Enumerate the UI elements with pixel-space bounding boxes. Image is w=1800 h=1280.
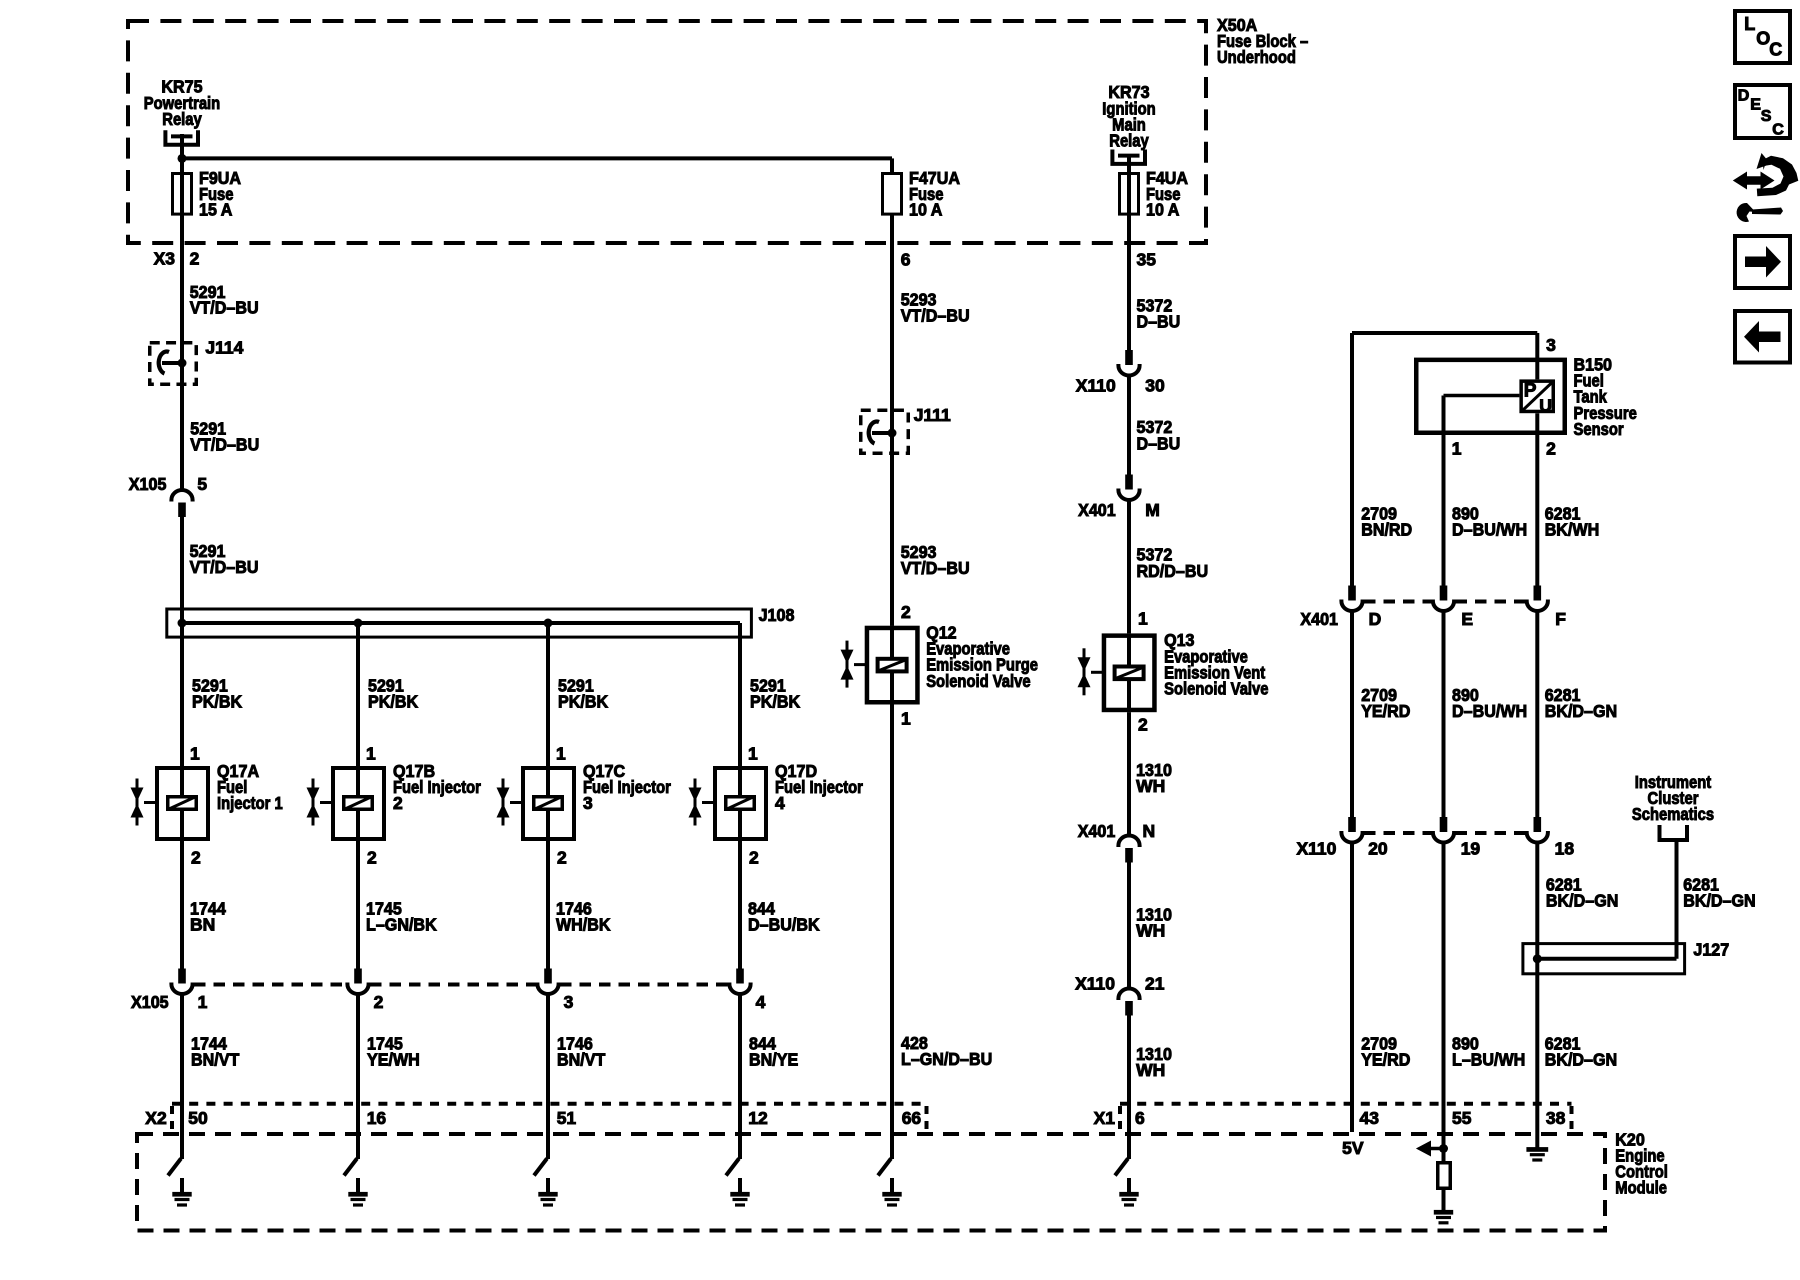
svg-text:43: 43 <box>1360 1108 1380 1128</box>
svg-text:RD/D–BU: RD/D–BU <box>1137 561 1209 581</box>
svg-text:BK/D–GN: BK/D–GN <box>1546 891 1619 911</box>
svg-text:1: 1 <box>366 744 376 764</box>
svg-text:3: 3 <box>564 992 574 1012</box>
svg-text:WH/BK: WH/BK <box>556 915 611 935</box>
svg-text:WH: WH <box>1136 776 1165 796</box>
svg-text:F: F <box>1555 609 1566 629</box>
svg-text:Relay: Relay <box>162 109 202 129</box>
svg-text:16: 16 <box>367 1108 387 1128</box>
svg-text:BN/RD: BN/RD <box>1361 520 1412 540</box>
svg-text:3: 3 <box>1546 335 1556 355</box>
svg-text:Module: Module <box>1615 1178 1667 1198</box>
svg-text:10 A: 10 A <box>909 200 943 220</box>
svg-text:35: 35 <box>1137 250 1157 270</box>
svg-text:M: M <box>1145 500 1160 520</box>
svg-text:1: 1 <box>1138 609 1148 629</box>
svg-text:10 A: 10 A <box>1146 200 1180 220</box>
svg-text:U: U <box>1539 396 1552 416</box>
svg-text:Relay: Relay <box>1109 131 1149 151</box>
svg-text:D–BU: D–BU <box>1137 433 1181 453</box>
svg-text:X401: X401 <box>1078 500 1116 520</box>
svg-text:X110: X110 <box>1076 376 1116 396</box>
svg-text:WH: WH <box>1136 920 1165 940</box>
svg-text:N: N <box>1143 821 1156 841</box>
svg-text:J111: J111 <box>914 405 951 425</box>
svg-text:3: 3 <box>583 793 593 813</box>
svg-text:C: C <box>1772 121 1784 138</box>
svg-text:6: 6 <box>1135 1108 1145 1128</box>
svg-text:2: 2 <box>367 848 377 868</box>
svg-text:YE/RD: YE/RD <box>1361 701 1410 721</box>
svg-text:Solenoid Valve: Solenoid Valve <box>926 671 1031 691</box>
svg-text:Underhood: Underhood <box>1217 47 1296 67</box>
svg-text:BK/D–GN: BK/D–GN <box>1545 1050 1618 1070</box>
svg-text:X401: X401 <box>1078 821 1116 841</box>
svg-text:VT/D–BU: VT/D–BU <box>190 434 259 454</box>
svg-text:51: 51 <box>557 1108 577 1128</box>
svg-text:VT/D–BU: VT/D–BU <box>190 298 259 318</box>
svg-text:Schematics: Schematics <box>1632 804 1714 824</box>
svg-text:30: 30 <box>1145 376 1165 396</box>
svg-text:2: 2 <box>749 848 759 868</box>
svg-text:J108: J108 <box>759 605 795 625</box>
svg-text:X1: X1 <box>1094 1108 1116 1128</box>
svg-text:X110: X110 <box>1296 838 1336 858</box>
svg-text:VT/D–BU: VT/D–BU <box>901 306 970 326</box>
svg-text:PK/BK: PK/BK <box>750 692 800 712</box>
svg-text:X2: X2 <box>145 1108 167 1128</box>
svg-text:12: 12 <box>748 1108 768 1128</box>
svg-text:Fuel Injector: Fuel Injector <box>583 777 671 797</box>
svg-text:X105: X105 <box>131 992 169 1012</box>
svg-text:5V: 5V <box>1342 1138 1364 1158</box>
svg-text:2: 2 <box>191 848 201 868</box>
svg-text:VT/D–BU: VT/D–BU <box>901 558 970 578</box>
svg-text:PK/BK: PK/BK <box>192 692 242 712</box>
svg-text:S: S <box>1761 108 1772 125</box>
svg-text:1: 1 <box>556 744 566 764</box>
svg-text:L–GN/BK: L–GN/BK <box>366 915 437 935</box>
svg-text:Injector 1: Injector 1 <box>217 793 283 813</box>
svg-text:BK/WH: BK/WH <box>1545 520 1600 540</box>
svg-text:D–BU/BK: D–BU/BK <box>748 915 820 935</box>
svg-text:38: 38 <box>1546 1108 1566 1128</box>
svg-text:PK/BK: PK/BK <box>558 692 608 712</box>
svg-text:WH: WH <box>1136 1060 1165 1080</box>
svg-text:O: O <box>1756 29 1770 49</box>
svg-text:15 A: 15 A <box>199 200 233 220</box>
svg-text:J114: J114 <box>205 338 243 358</box>
svg-text:BN/YE: BN/YE <box>749 1050 798 1070</box>
svg-text:X105: X105 <box>129 474 167 494</box>
svg-text:5: 5 <box>197 474 207 494</box>
svg-text:2: 2 <box>1138 715 1148 735</box>
svg-text:1: 1 <box>1452 438 1462 458</box>
svg-text:X110: X110 <box>1075 974 1115 994</box>
svg-text:1: 1 <box>190 744 200 764</box>
svg-text:P: P <box>1524 380 1537 401</box>
svg-text:2: 2 <box>557 848 567 868</box>
svg-text:X401: X401 <box>1300 609 1338 629</box>
svg-text:C: C <box>1769 39 1782 59</box>
svg-text:4: 4 <box>756 992 766 1012</box>
svg-text:20: 20 <box>1368 838 1388 858</box>
svg-text:2: 2 <box>190 249 200 269</box>
svg-text:21: 21 <box>1145 974 1165 994</box>
svg-text:X3: X3 <box>154 249 176 269</box>
svg-text:YE/RD: YE/RD <box>1361 1050 1410 1070</box>
svg-text:L–GN/D–BU: L–GN/D–BU <box>901 1049 992 1069</box>
svg-text:PK/BK: PK/BK <box>368 692 418 712</box>
svg-text:Fuel Injector: Fuel Injector <box>393 777 481 797</box>
svg-text:BK/D–GN: BK/D–GN <box>1683 891 1756 911</box>
svg-text:Fuel Injector: Fuel Injector <box>775 777 863 797</box>
svg-text:66: 66 <box>902 1108 922 1128</box>
svg-text:6: 6 <box>901 250 911 270</box>
svg-text:L–BU/WH: L–BU/WH <box>1452 1050 1525 1070</box>
svg-text:4: 4 <box>775 793 785 813</box>
svg-text:E: E <box>1750 97 1761 114</box>
svg-text:VT/D–BU: VT/D–BU <box>190 557 259 577</box>
svg-text:Sensor: Sensor <box>1574 419 1624 439</box>
svg-text:BN/VT: BN/VT <box>191 1050 240 1070</box>
svg-text:2: 2 <box>1546 438 1556 458</box>
svg-text:55: 55 <box>1452 1108 1472 1128</box>
svg-text:2: 2 <box>901 602 911 622</box>
svg-text:1: 1 <box>198 992 208 1012</box>
svg-text:2: 2 <box>393 793 403 813</box>
svg-text:19: 19 <box>1461 838 1481 858</box>
svg-text:YE/WH: YE/WH <box>367 1050 420 1070</box>
svg-text:J127: J127 <box>1693 940 1729 960</box>
svg-text:D–BU/WH: D–BU/WH <box>1452 701 1527 721</box>
svg-text:50: 50 <box>188 1108 208 1128</box>
svg-text:BN: BN <box>190 915 215 935</box>
svg-text:D–BU: D–BU <box>1137 312 1181 332</box>
svg-text:D: D <box>1369 609 1382 629</box>
svg-text:BN/VT: BN/VT <box>557 1050 606 1070</box>
svg-text:D: D <box>1738 88 1750 105</box>
svg-text:D–BU/WH: D–BU/WH <box>1452 520 1527 540</box>
svg-text:18: 18 <box>1555 838 1575 858</box>
svg-text:2: 2 <box>374 992 384 1012</box>
svg-text:L: L <box>1744 14 1755 34</box>
svg-text:Solenoid Valve: Solenoid Valve <box>1164 679 1269 699</box>
svg-text:1: 1 <box>748 744 758 764</box>
svg-text:E: E <box>1461 609 1473 629</box>
svg-text:1: 1 <box>901 708 911 728</box>
svg-text:BK/D–GN: BK/D–GN <box>1545 701 1618 721</box>
